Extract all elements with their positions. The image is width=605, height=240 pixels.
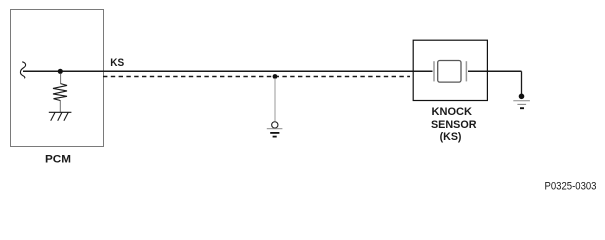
svg-text:(KS): (KS) [440,131,462,143]
svg-text:PCM: PCM [45,154,71,166]
svg-text:SENSOR: SENSOR [431,119,477,131]
svg-text:P0325-0303: P0325-0303 [545,181,597,193]
svg-text:KS: KS [110,57,124,69]
svg-text:KNOCK: KNOCK [432,106,473,118]
